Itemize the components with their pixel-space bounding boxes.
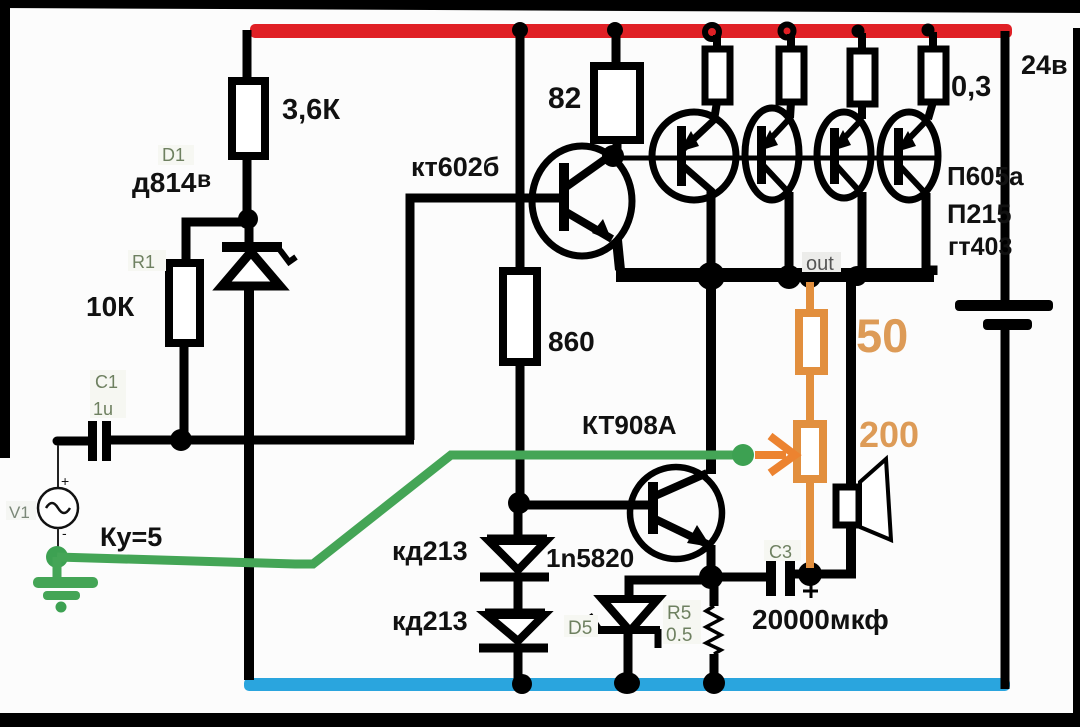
svg-text:+: + <box>61 473 69 489</box>
svg-text:3,6К: 3,6К <box>282 94 340 126</box>
svg-text:50: 50 <box>856 309 908 362</box>
svg-text:C1: C1 <box>95 372 118 392</box>
svg-text:82: 82 <box>548 82 581 115</box>
svg-text:860: 860 <box>548 326 595 357</box>
svg-text:кт602б: кт602б <box>411 152 499 182</box>
svg-text:V1: V1 <box>9 503 30 522</box>
svg-text:D5: D5 <box>568 618 592 639</box>
svg-text:гт403: гт403 <box>948 233 1012 261</box>
svg-text:C3: C3 <box>769 542 792 562</box>
svg-text:в: в <box>197 166 211 192</box>
svg-text:1n5820: 1n5820 <box>546 543 634 573</box>
svg-text:0,3: 0,3 <box>951 71 991 103</box>
svg-text:П605а: П605а <box>947 161 1024 191</box>
svg-text:кд213: кд213 <box>392 606 468 636</box>
svg-text:-: - <box>62 525 67 541</box>
svg-text:д814: д814 <box>132 167 197 198</box>
svg-text:П215: П215 <box>947 199 1011 229</box>
svg-text:1u: 1u <box>93 399 113 419</box>
svg-text:24в: 24в <box>1021 50 1068 80</box>
svg-text:кд213: кд213 <box>392 536 468 566</box>
svg-text:КТ908А: КТ908А <box>582 410 677 440</box>
svg-text:200: 200 <box>859 414 919 455</box>
svg-text:20000мкф: 20000мкф <box>752 604 889 635</box>
svg-text:10К: 10К <box>86 291 135 322</box>
svg-text:R5: R5 <box>667 603 691 624</box>
svg-text:D1: D1 <box>162 145 185 165</box>
svg-text:out: out <box>806 253 834 275</box>
svg-text:R1: R1 <box>132 252 155 272</box>
svg-text:Ку=5: Ку=5 <box>100 522 162 552</box>
svg-text:0.5: 0.5 <box>666 625 692 646</box>
